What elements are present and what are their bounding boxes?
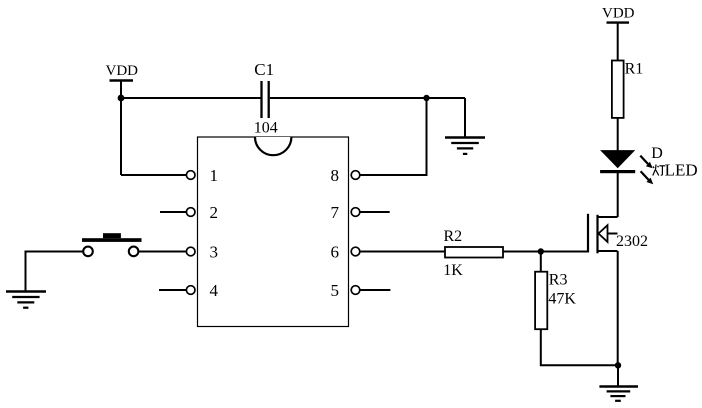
wire drain to LED	[617, 172, 619, 217]
pin 7 circle	[351, 208, 360, 217]
pin 1 circle	[186, 171, 195, 180]
transistor Q1 2302	[588, 214, 618, 254]
wire gate node to R3	[540, 252, 542, 272]
wire pin2 stub	[160, 211, 186, 213]
ground GND1	[445, 138, 485, 154]
svg-text:4: 4	[210, 281, 219, 300]
svg-text:R3: R3	[549, 271, 568, 288]
svg-text:1: 1	[210, 166, 219, 185]
svg-text:6: 6	[331, 243, 340, 262]
ground GND3	[599, 387, 638, 401]
wire pin4 stub	[159, 289, 186, 291]
wire pin3 to button	[138, 251, 186, 253]
wire button to ground	[26, 252, 84, 292]
junction node gate	[538, 248, 544, 254]
resistor R3	[535, 272, 547, 330]
wire R1 to VDD2	[617, 23, 619, 61]
wire pin7 stub	[360, 211, 390, 213]
svg-text:VDD: VDD	[602, 6, 635, 22]
pin 6 circle	[351, 247, 360, 256]
pushbutton S1	[82, 233, 142, 256]
LED light arrow 2	[641, 171, 654, 184]
svg-text:R1: R1	[625, 60, 644, 77]
svg-text:R2: R2	[444, 228, 463, 245]
pin 8 circle	[351, 171, 360, 180]
wire rail to ground	[464, 98, 466, 137]
svg-text:104: 104	[254, 119, 278, 136]
ground GND2	[6, 292, 46, 308]
junction node pin8 tap	[423, 95, 429, 101]
LED D	[600, 150, 635, 173]
wire source to ground	[617, 365, 619, 386]
svg-text:D: D	[651, 145, 663, 162]
svg-text:7: 7	[331, 203, 340, 222]
pin 4 circle	[186, 286, 195, 295]
IC U1 body	[198, 137, 349, 327]
svg-text:LED: LED	[665, 161, 698, 180]
svg-text:2302: 2302	[616, 233, 648, 250]
svg-text:C1: C1	[254, 60, 274, 79]
LED light arrow 1	[640, 156, 652, 169]
wire top rail right	[270, 97, 465, 99]
resistor R1	[612, 61, 624, 118]
wire top rail left	[121, 97, 261, 99]
junction node source	[615, 362, 621, 368]
wire source down to node	[617, 251, 619, 365]
svg-text:1K: 1K	[443, 262, 463, 279]
pin 3 circle	[186, 247, 195, 256]
svg-text:47K: 47K	[548, 291, 576, 308]
IC U1 notch	[255, 137, 291, 155]
svg-text:5: 5	[331, 281, 340, 300]
wire LED to R1	[617, 118, 619, 151]
wire R3 to source node	[541, 329, 618, 365]
junction node VDD rail	[118, 95, 125, 102]
wire pin5 stub	[360, 289, 391, 291]
pin 5 circle	[351, 286, 360, 295]
power VDD2 symbol bar	[607, 21, 630, 23]
label LED lamp (灯) strokes	[653, 165, 666, 176]
wire pin6 to R2	[360, 251, 445, 253]
wire VDD1 stem	[120, 81, 122, 176]
svg-text:VDD: VDD	[106, 63, 139, 79]
power VDD1 symbol bar	[110, 79, 134, 81]
svg-text:2: 2	[210, 203, 219, 222]
wire R2 to gate	[503, 251, 588, 253]
svg-text:3: 3	[210, 243, 219, 262]
wire pin1 from VDD stem	[121, 174, 186, 176]
wire pin8 riser	[360, 98, 427, 175]
capacitor C1	[262, 81, 269, 118]
svg-text:8: 8	[331, 166, 340, 185]
resistor R2	[445, 247, 503, 258]
pin 2 circle	[186, 208, 195, 217]
